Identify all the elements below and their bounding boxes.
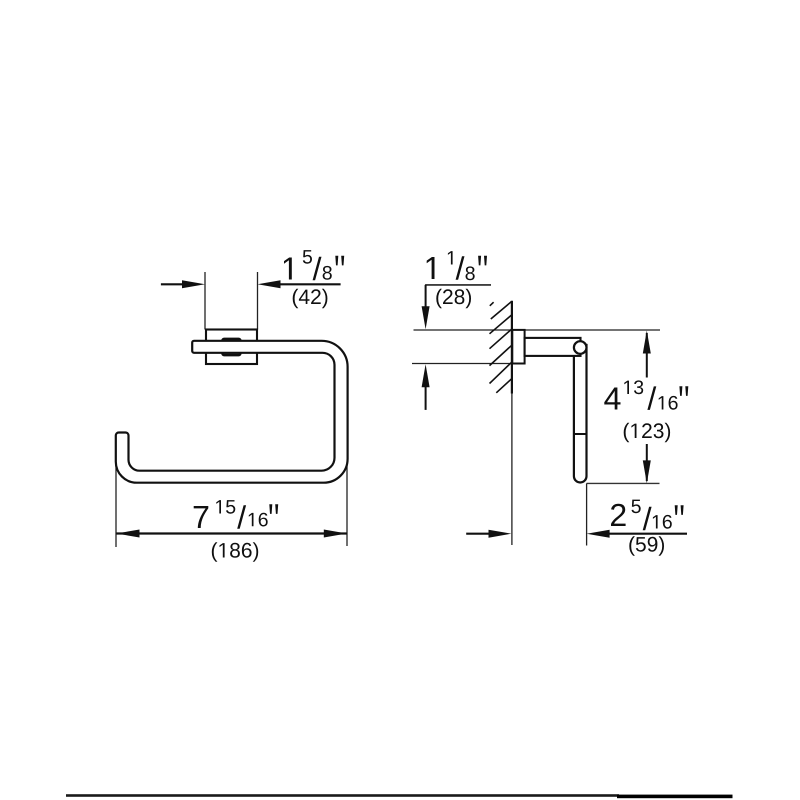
- hatch line 6 (short): [496, 379, 511, 393]
- extension line bottom-right of 186mm dim: [346, 450, 348, 546]
- text (123): [624, 423, 670, 443]
- ring tube outline: [116, 341, 348, 483]
- shelf line under 1 1/8": [425, 284, 491, 286]
- dim line 42mm left tail: [161, 283, 185, 285]
- mounting rod (side): [525, 338, 581, 356]
- arrow 59mm right (points left): [587, 530, 610, 538]
- reference line top of plate: [414, 329, 661, 331]
- text (28): [436, 289, 471, 309]
- pivot circle: [574, 341, 587, 354]
- extension line bottom-left of 186mm dim: [115, 460, 117, 547]
- 28mm dim lower shaft: [425, 382, 427, 410]
- hatch line 4: [490, 345, 512, 365]
- text (59): [629, 536, 664, 556]
- arrow 59mm left (points right): [489, 530, 512, 538]
- wall extension line continues down: [511, 394, 513, 546]
- hatch dash: [490, 302, 494, 306]
- wall edge (hatched part): [511, 301, 513, 394]
- bottom page rule left part: [66, 794, 619, 797]
- hatch line 1: [491, 301, 512, 319]
- inner mount boss: [223, 339, 241, 355]
- arrow 123mm (points up): [643, 331, 651, 354]
- 123mm dim lower shaft: [646, 444, 648, 481]
- arrow 186mm right (points right): [324, 530, 347, 538]
- 59mm dim right tail: [607, 533, 687, 535]
- dim line 186mm: [117, 532, 347, 534]
- text 7 15/16": [194, 500, 279, 529]
- reference line bottom of arm: [587, 482, 660, 484]
- hatch line 5: [490, 362, 512, 383]
- text 4 13/16": [604, 380, 688, 410]
- wall plate (front): [206, 330, 257, 365]
- arrow 42mm left (points right): [182, 280, 205, 288]
- 123mm dim upper shaft: [646, 333, 648, 378]
- text 1 5/8": [284, 250, 344, 280]
- extension line left of 42mm dim: [204, 272, 206, 330]
- arrow 42mm right (points left): [258, 280, 281, 288]
- text (42): [293, 289, 328, 309]
- text 2 5/16": [611, 500, 684, 531]
- arrow 28mm (points down): [422, 306, 430, 329]
- hatch line 3: [490, 329, 512, 349]
- pivot arm (vertical, rounded bottom): [574, 345, 587, 482]
- 28mm dim upper shaft: [425, 285, 427, 311]
- dim line 42mm right tail: [279, 283, 341, 285]
- hatch line 2: [490, 315, 512, 334]
- reference line bottom of plate: [412, 363, 512, 365]
- wall plate (side): [512, 330, 524, 364]
- arrow 123mm (points down): [643, 460, 651, 483]
- extension line right of 42mm dim: [257, 272, 259, 330]
- text (186): [212, 542, 258, 562]
- arm joint tick: [574, 433, 587, 435]
- text 1 1/8": [427, 251, 487, 280]
- arrow 28mm (points up): [422, 364, 430, 387]
- 59mm dim left tail: [466, 533, 490, 535]
- bottom page rule right part: [617, 795, 733, 799]
- extension line from arm edge: [586, 483, 588, 545]
- arrow 186mm left (points left): [117, 530, 140, 538]
